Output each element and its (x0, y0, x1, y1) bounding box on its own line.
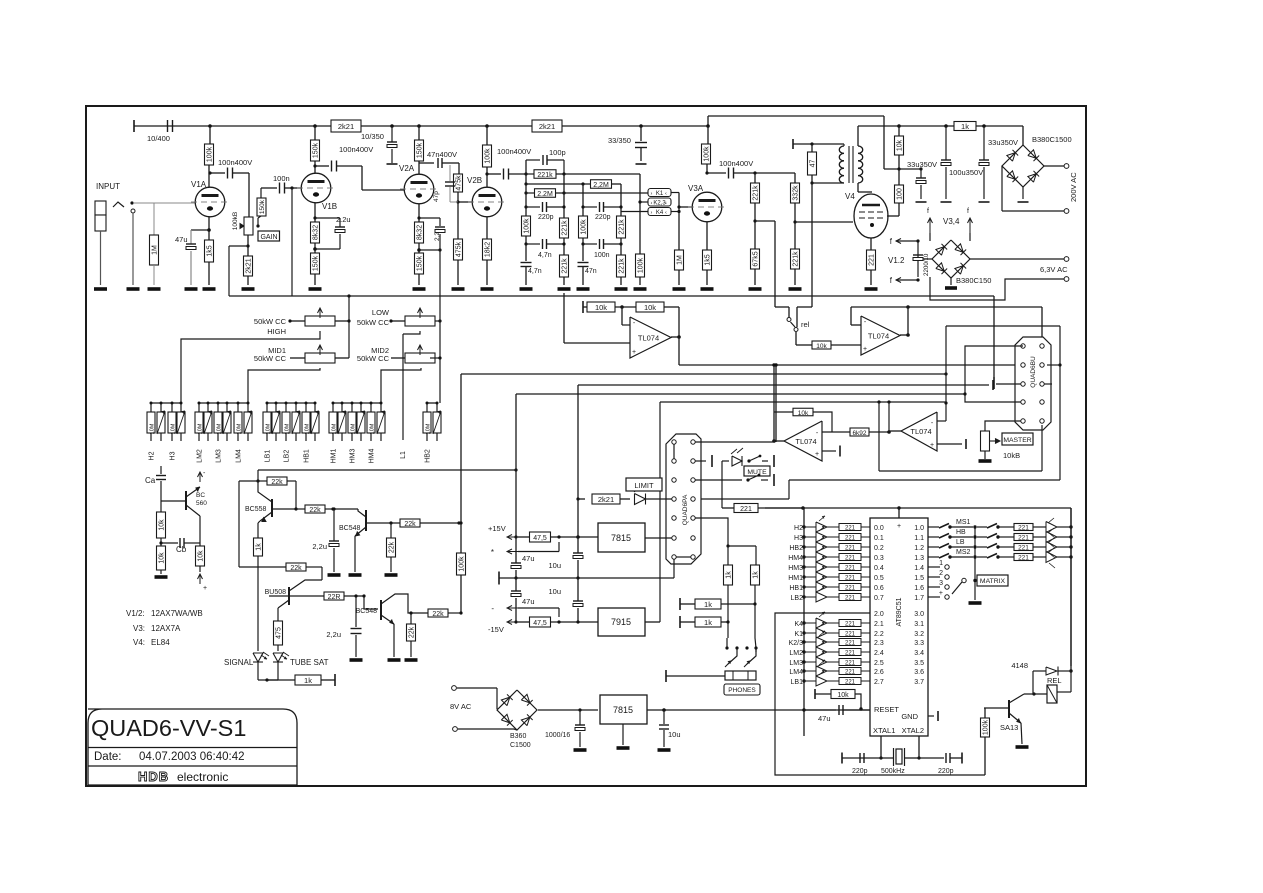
svg-text:221: 221 (845, 546, 856, 552)
svg-text:10M: 10M (171, 423, 177, 434)
svg-text:221: 221 (845, 661, 856, 667)
svg-text:XTAL1: XTAL1 (873, 726, 895, 735)
svg-text:10M: 10M (285, 423, 291, 434)
svg-text:2.3: 2.3 (874, 640, 884, 647)
svg-text:10u: 10u (548, 561, 561, 570)
svg-text:LB1: LB1 (265, 450, 272, 463)
svg-text:‹: ‹ (665, 201, 667, 207)
svg-text:1.5: 1.5 (914, 575, 924, 582)
svg-text:LM2: LM2 (789, 650, 803, 657)
svg-text:221: 221 (1018, 545, 1029, 552)
svg-text:1000/16: 1000/16 (545, 732, 570, 739)
svg-text:1.3: 1.3 (914, 555, 924, 562)
svg-text:100n: 100n (594, 252, 610, 259)
svg-text:221: 221 (845, 632, 856, 638)
svg-text:0.5: 0.5 (874, 575, 884, 582)
svg-text:100: 100 (897, 188, 904, 200)
svg-text:2.2M: 2.2M (537, 191, 553, 198)
svg-text:1.4: 1.4 (914, 565, 924, 572)
svg-text:2.1: 2.1 (874, 621, 884, 628)
svg-text:220p: 220p (595, 214, 611, 221)
svg-text:221: 221 (845, 556, 856, 562)
svg-text:221k: 221k (793, 251, 800, 267)
svg-text:GAIN: GAIN (260, 234, 277, 241)
svg-text:221: 221 (869, 254, 876, 266)
svg-text:TL074: TL074 (638, 334, 659, 343)
svg-text:221k: 221k (753, 185, 760, 201)
svg-text:100n400V: 100n400V (719, 159, 753, 168)
svg-text:221: 221 (1018, 535, 1029, 542)
svg-text:475: 475 (276, 627, 283, 639)
svg-text:2: 2 (939, 570, 943, 577)
svg-text:1.7: 1.7 (914, 595, 924, 602)
svg-text:500kHz: 500kHz (881, 768, 905, 775)
svg-text:LM2: LM2 (197, 449, 204, 463)
svg-text:10k: 10k (159, 519, 166, 531)
svg-text:3.1: 3.1 (914, 621, 924, 628)
svg-text:47,5: 47,5 (533, 620, 547, 627)
svg-text:1k5: 1k5 (207, 245, 214, 256)
svg-text:100n400V: 100n400V (497, 147, 531, 156)
svg-text:H3: H3 (794, 535, 803, 542)
svg-text:100n400V: 100n400V (218, 158, 252, 167)
svg-text:221: 221 (845, 576, 856, 582)
svg-text:LB2: LB2 (791, 595, 804, 602)
svg-text:47n400V: 47n400V (427, 150, 457, 159)
svg-text:HB: HB (956, 529, 966, 536)
svg-text:HB1: HB1 (304, 449, 311, 463)
svg-text:1.0: 1.0 (914, 525, 924, 532)
svg-text:22k: 22k (389, 541, 396, 553)
svg-text:221: 221 (845, 680, 856, 686)
svg-text:LB2: LB2 (284, 450, 291, 463)
svg-text:HB2: HB2 (789, 545, 803, 552)
svg-text:221k: 221k (562, 220, 569, 236)
svg-text:10M: 10M (198, 423, 204, 434)
svg-text:electronic: electronic (177, 770, 228, 784)
svg-text:1k: 1k (961, 122, 969, 131)
svg-text:67k5: 67k5 (753, 251, 760, 266)
svg-text:221: 221 (1018, 555, 1029, 562)
svg-text:47n: 47n (585, 268, 597, 275)
svg-text:REL: REL (1047, 676, 1062, 685)
svg-text:221: 221 (845, 670, 856, 676)
svg-text:7915: 7915 (611, 617, 631, 627)
svg-text:C1500: C1500 (510, 742, 531, 749)
svg-text:BC: BC (196, 492, 205, 499)
svg-text:220p: 220p (852, 768, 868, 775)
svg-text:33u350V: 33u350V (988, 138, 1018, 147)
svg-text:100k: 100k (524, 218, 531, 234)
svg-text:10kB: 10kB (1003, 451, 1020, 460)
svg-text:+15V: +15V (488, 524, 506, 533)
svg-text:2k21: 2k21 (338, 122, 354, 131)
svg-text:221k: 221k (537, 172, 553, 179)
svg-text:1.2: 1.2 (914, 545, 924, 552)
svg-text:22k: 22k (290, 565, 302, 572)
svg-text:18k2: 18k2 (485, 242, 492, 257)
svg-text:HM4: HM4 (788, 555, 803, 562)
svg-text:10k: 10k (198, 550, 205, 562)
svg-text:2.4: 2.4 (874, 650, 884, 657)
svg-text:10M: 10M (351, 423, 357, 434)
svg-text:2.0: 2.0 (874, 611, 884, 618)
svg-text:10M: 10M (217, 423, 223, 434)
svg-text:LIMIT: LIMIT (634, 481, 654, 490)
svg-text:3.4: 3.4 (914, 650, 924, 657)
svg-text:INPUT: INPUT (96, 182, 120, 191)
svg-text:220p: 220p (938, 768, 954, 775)
svg-text:221: 221 (845, 596, 856, 602)
svg-text:2.7: 2.7 (874, 679, 884, 686)
svg-text:BC558: BC558 (245, 506, 267, 513)
svg-text:475k: 475k (456, 175, 463, 191)
svg-text:100k: 100k (704, 146, 711, 162)
svg-text:50kW CC: 50kW CC (254, 354, 287, 363)
svg-text:HM3: HM3 (350, 449, 357, 464)
svg-text:-: - (491, 604, 494, 613)
svg-text:+: + (897, 523, 901, 530)
svg-text:HM4: HM4 (369, 449, 376, 464)
svg-text:10M: 10M (266, 423, 272, 434)
svg-text:221k: 221k (619, 258, 626, 274)
svg-text:10M: 10M (150, 423, 156, 434)
svg-text:LB: LB (956, 539, 965, 546)
svg-text:MATRIX: MATRIX (980, 578, 1006, 585)
svg-text:10/350: 10/350 (361, 132, 384, 141)
svg-text:100n: 100n (273, 174, 290, 183)
svg-text:V1/2:: V1/2: (126, 609, 145, 618)
svg-text:V1.2: V1.2 (888, 256, 905, 265)
svg-text:+: + (863, 346, 867, 353)
svg-text:V4: V4 (845, 192, 855, 201)
svg-text:TUBE SAT: TUBE SAT (290, 658, 329, 667)
svg-text:3.0: 3.0 (914, 611, 924, 618)
svg-text:8k32: 8k32 (417, 225, 424, 240)
svg-text:AT89C51: AT89C51 (896, 597, 903, 626)
svg-text:22k: 22k (309, 507, 321, 514)
svg-text:6,3V AC: 6,3V AC (1040, 265, 1068, 274)
svg-text:MASTER: MASTER (1003, 437, 1031, 444)
svg-text:B360: B360 (510, 733, 526, 740)
svg-text:2.2u: 2.2u (336, 215, 351, 224)
svg-text:B380C150: B380C150 (956, 276, 991, 285)
svg-text:100k: 100k (207, 146, 214, 162)
svg-text:HM1: HM1 (331, 449, 338, 464)
svg-text:22k: 22k (404, 521, 416, 528)
svg-text:1M: 1M (152, 245, 159, 255)
svg-text:BC548: BC548 (356, 608, 378, 615)
svg-text:f: f (967, 208, 969, 215)
svg-text:MS1: MS1 (956, 519, 971, 526)
svg-text:0.4: 0.4 (874, 565, 884, 572)
svg-text:33u350V: 33u350V (907, 160, 937, 169)
svg-text:TL074: TL074 (795, 437, 816, 446)
svg-text:4,7n: 4,7n (538, 252, 552, 259)
svg-text:2k21: 2k21 (598, 495, 614, 504)
svg-text:3.2: 3.2 (914, 631, 924, 638)
svg-text:V1B: V1B (322, 202, 337, 211)
svg-text:HB2: HB2 (425, 449, 432, 463)
svg-text:50kW CC: 50kW CC (254, 317, 287, 326)
svg-text:2.6: 2.6 (874, 669, 884, 676)
svg-text:Cb: Cb (176, 545, 187, 554)
svg-text:6k92: 6k92 (852, 430, 866, 437)
svg-text:100n400V: 100n400V (339, 145, 373, 154)
svg-text:BC548: BC548 (339, 525, 361, 532)
svg-text:L1: L1 (400, 451, 407, 459)
svg-text:10M: 10M (305, 423, 311, 434)
svg-text:HDB: HDB (138, 769, 169, 784)
svg-text:100k: 100k (638, 257, 645, 273)
svg-text:HM3: HM3 (788, 565, 803, 572)
svg-text:1k: 1k (304, 676, 312, 685)
svg-text:221: 221 (845, 622, 856, 628)
svg-text:10u: 10u (548, 587, 561, 596)
svg-text:33/350: 33/350 (608, 136, 631, 145)
svg-text:B380C1500: B380C1500 (1032, 135, 1072, 144)
svg-text:V2A: V2A (399, 164, 415, 173)
svg-text:MS2: MS2 (956, 549, 971, 556)
svg-text:0.2: 0.2 (874, 545, 884, 552)
svg-text:3.6: 3.6 (914, 669, 924, 676)
svg-text:H2: H2 (794, 525, 803, 532)
svg-text:100u350V: 100u350V (949, 168, 983, 177)
svg-text:221k: 221k (562, 258, 569, 274)
svg-text:10k: 10k (798, 410, 809, 417)
svg-text:22k: 22k (432, 611, 444, 618)
svg-text:K4: K4 (656, 210, 664, 216)
svg-text:SA13: SA13 (1000, 723, 1018, 732)
svg-text:47u: 47u (175, 235, 188, 244)
svg-text:12AX7A: 12AX7A (151, 624, 181, 633)
svg-text:10k: 10k (897, 139, 904, 151)
svg-text:0.3: 0.3 (874, 555, 884, 562)
svg-text:1.1: 1.1 (914, 535, 924, 542)
svg-text:10k: 10k (816, 343, 827, 350)
svg-text:V2B: V2B (467, 176, 482, 185)
svg-text:100k: 100k (983, 719, 990, 735)
svg-text:PHONES: PHONES (728, 687, 756, 694)
svg-text:150k: 150k (313, 255, 320, 271)
svg-text:2,2u: 2,2u (312, 542, 327, 551)
svg-text:1k: 1k (704, 600, 712, 609)
svg-text:GND: GND (901, 712, 918, 721)
svg-text:HIGH: HIGH (267, 327, 286, 336)
svg-text:1: 1 (939, 560, 943, 567)
svg-text:0.0: 0.0 (874, 525, 884, 532)
svg-text:+: + (930, 442, 934, 449)
svg-text:221: 221 (1018, 525, 1029, 532)
svg-text:1k: 1k (256, 543, 263, 551)
svg-text:100p: 100p (549, 148, 566, 157)
svg-text:H3: H3 (170, 451, 177, 460)
svg-text:7815: 7815 (613, 705, 633, 715)
svg-text:+: + (632, 349, 636, 356)
svg-text:1k5: 1k5 (705, 254, 712, 265)
svg-text:LOW: LOW (372, 308, 390, 317)
svg-text:1k: 1k (704, 618, 712, 627)
svg-text:10M: 10M (370, 423, 376, 434)
svg-text:+: + (815, 451, 819, 458)
svg-text:LM4: LM4 (789, 669, 803, 676)
svg-text:K1: K1 (656, 191, 664, 197)
svg-text:200V AC: 200V AC (1069, 172, 1078, 202)
svg-text:221: 221 (845, 651, 856, 657)
svg-text:4,7n: 4,7n (528, 268, 542, 275)
svg-text:3.3: 3.3 (914, 640, 924, 647)
svg-text:150k: 150k (417, 255, 424, 271)
svg-text:LM3: LM3 (789, 660, 803, 667)
svg-text:‹: ‹ (665, 210, 667, 216)
svg-text:2200/10: 2200/10 (923, 253, 930, 276)
svg-text:›: › (651, 191, 653, 197)
svg-text:›: › (651, 201, 653, 207)
svg-text:RESET: RESET (874, 705, 899, 714)
svg-text:+: + (939, 590, 943, 597)
svg-text:2,2u: 2,2u (326, 630, 341, 639)
svg-text:10k: 10k (159, 552, 166, 564)
svg-text:10/400: 10/400 (147, 134, 170, 143)
svg-text:Ca: Ca (145, 476, 156, 485)
svg-text:K4: K4 (794, 621, 803, 628)
svg-text:150k: 150k (313, 142, 320, 158)
svg-text:V4:: V4: (133, 638, 145, 647)
svg-text:2.5: 2.5 (874, 660, 884, 667)
svg-text:0.7: 0.7 (874, 595, 884, 602)
svg-text:22k: 22k (271, 479, 283, 486)
svg-text:K2/3: K2/3 (789, 640, 804, 647)
svg-text:7815: 7815 (611, 533, 631, 543)
svg-text:QUAD6-VV-S1: QUAD6-VV-S1 (91, 715, 246, 741)
svg-text:0.1: 0.1 (874, 535, 884, 542)
svg-text:332k: 332k (793, 185, 800, 201)
svg-text:‹: ‹ (665, 191, 667, 197)
svg-text:V3:: V3: (133, 624, 145, 633)
svg-text:LM3: LM3 (216, 449, 223, 463)
svg-text:1M: 1M (677, 255, 684, 265)
svg-text:3: 3 (939, 580, 943, 587)
svg-text:TL074: TL074 (910, 427, 931, 436)
svg-text:221: 221 (845, 641, 856, 647)
svg-text:V3,4: V3,4 (943, 217, 960, 226)
svg-text:100k: 100k (459, 556, 466, 572)
svg-text:560: 560 (196, 500, 207, 507)
svg-text:10M: 10M (237, 423, 243, 434)
svg-text:f: f (927, 208, 929, 215)
svg-text:10u: 10u (668, 730, 681, 739)
svg-text:10M: 10M (426, 423, 432, 434)
svg-text:10k: 10k (837, 692, 849, 699)
svg-text:SIGNAL: SIGNAL (224, 658, 254, 667)
svg-text:8k32: 8k32 (313, 225, 320, 240)
svg-text:475k: 475k (456, 241, 463, 257)
svg-text:HB1: HB1 (789, 585, 803, 592)
svg-text:H2: H2 (149, 451, 156, 460)
svg-text:47,5: 47,5 (533, 535, 547, 542)
svg-text:150k: 150k (259, 199, 266, 214)
svg-text:47p: 47p (433, 191, 440, 202)
svg-text:22k: 22k (409, 626, 416, 638)
svg-text:221: 221 (740, 506, 752, 513)
svg-text:10k: 10k (595, 303, 607, 312)
svg-text:221: 221 (845, 536, 856, 542)
svg-text:-15V: -15V (488, 625, 504, 634)
svg-text:BU508: BU508 (265, 589, 287, 596)
svg-text:220p: 220p (538, 214, 554, 221)
svg-text:47u: 47u (818, 714, 831, 723)
svg-text:2,2M: 2,2M (593, 182, 609, 189)
svg-text:MUTE: MUTE (747, 469, 767, 476)
svg-text:QUAD6PA: QUAD6PA (682, 494, 689, 525)
svg-text:2k21: 2k21 (539, 122, 555, 131)
svg-text:2.2: 2.2 (874, 631, 884, 638)
svg-text:2k21: 2k21 (246, 258, 253, 273)
svg-text:100kB: 100kB (232, 212, 239, 230)
svg-text:150k: 150k (417, 142, 424, 158)
svg-text:100k: 100k (485, 148, 492, 164)
svg-text:221: 221 (845, 586, 856, 592)
svg-text:+: + (203, 585, 207, 592)
svg-text:1.6: 1.6 (914, 585, 924, 592)
svg-text:V3A: V3A (688, 184, 704, 193)
svg-text:47: 47 (810, 160, 817, 168)
svg-text:3.7: 3.7 (914, 679, 924, 686)
svg-text:LM4: LM4 (236, 449, 243, 463)
svg-text:XTAL2: XTAL2 (902, 726, 924, 735)
svg-text:1k: 1k (753, 571, 760, 579)
svg-text:10M: 10M (332, 423, 338, 434)
svg-text:QUAD6BU: QUAD6BU (1030, 356, 1037, 388)
svg-text:8V AC: 8V AC (450, 702, 472, 711)
svg-text:10k: 10k (644, 303, 656, 312)
svg-text:1k: 1k (726, 571, 733, 579)
svg-text:LB1: LB1 (791, 679, 804, 686)
svg-text:3.5: 3.5 (914, 660, 924, 667)
svg-text:221: 221 (845, 566, 856, 572)
svg-text:47u: 47u (522, 554, 535, 563)
svg-text:TL074: TL074 (868, 332, 889, 341)
svg-text:50kW CC: 50kW CC (357, 318, 390, 327)
svg-text:Date:: Date: (94, 751, 122, 763)
svg-text:221: 221 (845, 526, 856, 532)
svg-text:EL84: EL84 (151, 638, 170, 647)
svg-text:221k: 221k (619, 219, 626, 235)
svg-text:0.6: 0.6 (874, 585, 884, 592)
svg-text:100k: 100k (581, 219, 588, 235)
svg-text:50kW CC: 50kW CC (357, 354, 390, 363)
svg-text:›: › (651, 210, 653, 216)
svg-text:K1: K1 (794, 631, 803, 638)
svg-text:47u: 47u (522, 597, 535, 606)
svg-text:4148: 4148 (1011, 661, 1028, 670)
svg-text:22R: 22R (328, 594, 341, 601)
svg-text:12AX7WA/WB: 12AX7WA/WB (151, 609, 203, 618)
svg-text:HM1: HM1 (788, 575, 803, 582)
svg-text:04.07.2003 06:40:42: 04.07.2003 06:40:42 (139, 751, 245, 763)
svg-text:rel: rel (801, 320, 810, 329)
svg-text:*: * (491, 548, 494, 557)
